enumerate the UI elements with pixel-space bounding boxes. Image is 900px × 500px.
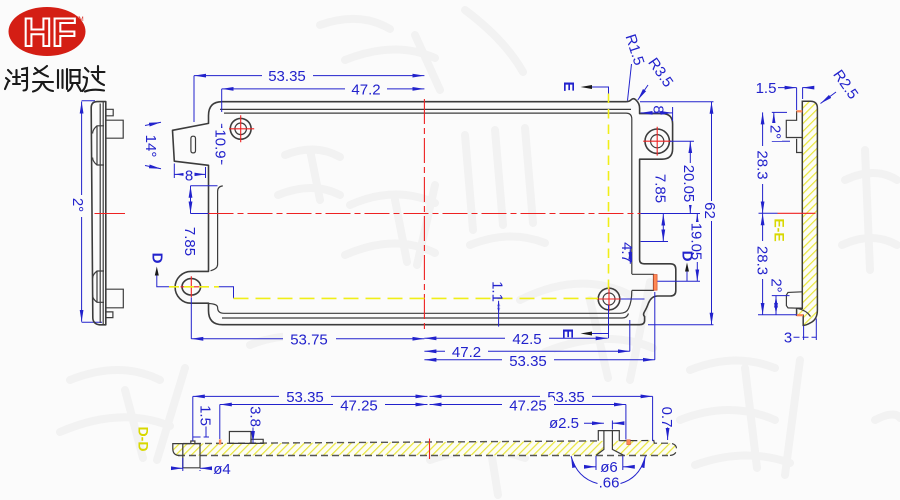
svg-text:3: 3 — [784, 330, 792, 347]
svg-text:4.7: 4.7 — [618, 242, 635, 263]
dim 7.85 left — [191, 186, 218, 214]
svg-text:E: E — [559, 328, 576, 338]
dim 8 right ear — [641, 107, 673, 121]
DD dim 53.35 left — [193, 396, 428, 441]
logo HF ellipse — [9, 7, 86, 56]
DD strip bottom edge dashed — [178, 455, 668, 457]
dim 47.2 top — [222, 89, 425, 112]
main inner mid top line — [220, 108, 631, 110]
DD dim o2.5 — [584, 421, 620, 430]
DD dim 1.5 — [193, 427, 209, 438]
svg-text:47.25: 47.25 — [509, 398, 547, 415]
svg-text:8: 8 — [650, 105, 667, 113]
DD left end — [173, 444, 183, 456]
svg-text:47.2: 47.2 — [351, 82, 380, 99]
DD step small — [251, 439, 263, 443]
hole bottom-left — [181, 276, 203, 297]
svg-text:.66: .66 — [599, 475, 620, 492]
dim 19.05 — [658, 214, 701, 282]
svg-text:53.75: 53.75 — [290, 332, 328, 349]
main horizontal centerline red — [209, 213, 641, 215]
dim 53.35 bottom — [424, 292, 654, 360]
svg-text:3.8: 3.8 — [247, 406, 264, 427]
DD blue right stub — [621, 298, 645, 300]
logo chinese text 鸿发顺达 — [5, 66, 105, 92]
EE dim 1.5 — [778, 88, 809, 110]
dim 62 — [640, 102, 714, 325]
dim 47.2 bottom — [424, 320, 629, 351]
side view top pill boss — [93, 126, 104, 165]
DD dim 53.35 right — [430, 396, 653, 441]
DD dim 47.25 left — [220, 405, 428, 440]
DD centerline red — [429, 439, 431, 460]
svg-text:TM: TM — [75, 17, 84, 23]
svg-text:1.5: 1.5 — [756, 80, 777, 97]
DD orange square — [627, 440, 631, 445]
svg-text:HF: HF — [23, 11, 76, 55]
hole top-right — [643, 127, 671, 156]
main inner opening — [209, 113, 632, 313]
DD dim .66 arcs — [571, 456, 646, 484]
main inner mid bottom line — [222, 314, 629, 319]
svg-text:42.5: 42.5 — [512, 331, 541, 348]
D marker bottom-left — [149, 253, 169, 287]
svg-text:47.25: 47.25 — [340, 398, 378, 415]
DD rivet boss — [596, 431, 623, 456]
svg-text:28.3: 28.3 — [754, 150, 771, 179]
R1.5 label — [622, 32, 648, 100]
svg-text:ø6: ø6 — [600, 459, 618, 476]
EE R2.5 label — [821, 67, 862, 104]
R3.5 label — [638, 55, 677, 100]
DD dim 3.8 — [252, 428, 254, 444]
dim 20.05 — [670, 141, 694, 213]
side view bottom step — [106, 312, 113, 318]
EE centerline — [759, 212, 778, 214]
main horizontal centerline blue extension — [191, 213, 701, 215]
svg-text:D: D — [149, 253, 166, 264]
side view red centerline — [95, 213, 126, 215]
dim 14deg — [145, 122, 161, 169]
svg-text:47.2: 47.2 — [452, 344, 481, 361]
D marker right — [679, 251, 696, 282]
DD dim 47.25 right — [430, 405, 626, 440]
svg-text:ø2.5: ø2.5 — [549, 415, 579, 432]
dim 8 left tab — [174, 164, 205, 179]
svg-text:7.85: 7.85 — [652, 174, 669, 203]
svg-text:2°: 2° — [69, 198, 86, 212]
DD left boss o4 — [183, 444, 200, 468]
side view bottom tab — [106, 289, 124, 308]
svg-text:D: D — [679, 251, 696, 262]
dim 7.85 right — [641, 214, 668, 242]
DD dim o4 — [174, 458, 212, 471]
svg-text:53.35: 53.35 — [286, 389, 324, 406]
DD hatched strip — [173, 441, 677, 456]
EE dim 28.3 bottom — [758, 213, 797, 314]
svg-text:2°: 2° — [768, 278, 785, 292]
svg-text:7.85: 7.85 — [181, 227, 198, 256]
svg-text:53.35: 53.35 — [268, 68, 306, 85]
dim 4.7 — [629, 248, 631, 264]
svg-text:28.3: 28.3 — [754, 246, 771, 275]
svg-text:1.1: 1.1 — [489, 281, 506, 302]
side view top tab — [106, 120, 123, 138]
svg-text:E-E: E-E — [771, 218, 787, 241]
DD strip right top edge — [619, 441, 676, 456]
dim 53.35 top — [194, 76, 424, 122]
side view dim 2deg line — [82, 101, 102, 322]
dim 53.75 bottom — [191, 298, 424, 339]
EE hatched body — [797, 101, 818, 325]
side view outline — [91, 102, 106, 325]
DD orange tick — [219, 439, 221, 444]
DD left boss nub — [191, 441, 195, 444]
hole top-left — [227, 115, 254, 142]
svg-text:53.35: 53.35 — [509, 353, 547, 370]
svg-text:20.05: 20.05 — [680, 165, 697, 203]
side view top small tab — [106, 109, 113, 116]
EE orange tick bottom — [797, 314, 804, 316]
main outer outline — [173, 99, 676, 325]
side view inner vertical lines — [100, 102, 103, 324]
EE dim 3 — [794, 319, 817, 341]
E marker bottom — [559, 328, 608, 338]
EE orange tick top — [797, 110, 803, 112]
svg-text:E: E — [560, 81, 577, 91]
dim 10.9 — [221, 124, 223, 165]
svg-text:62: 62 — [701, 202, 718, 219]
DD step big — [229, 432, 251, 444]
side view bottom pill boss — [93, 271, 104, 302]
main bottom right protrusion — [632, 274, 654, 290]
svg-text:1.5: 1.5 — [197, 405, 214, 426]
svg-text:0.7: 0.7 — [658, 407, 675, 428]
EE foot curve — [797, 308, 811, 316]
dim 42.5 bottom — [424, 305, 608, 338]
EE top-left tab — [786, 111, 802, 152]
DD yellow section line main — [234, 297, 599, 299]
main vertical centerline red — [423, 99, 425, 333]
hole bottom-right — [597, 287, 622, 312]
DD dim o6 — [586, 456, 634, 470]
E marker top — [560, 81, 608, 93]
DD dim 0.7 — [667, 427, 669, 440]
DD strip top edge dashed — [183, 441, 598, 444]
svg-text:ø4: ø4 — [213, 461, 231, 478]
EE dim 2deg top — [772, 112, 790, 141]
orange bar right — [654, 275, 658, 291]
svg-text:8: 8 — [185, 168, 193, 185]
dim 1.1 — [497, 301, 500, 327]
main tab slot — [191, 136, 196, 153]
EE dim 28.3 top — [762, 112, 764, 213]
DD blue jog — [219, 287, 234, 299]
svg-text:D-D: D-D — [135, 427, 151, 452]
DD yellow section line left — [169, 286, 219, 288]
svg-text:14°: 14° — [142, 135, 159, 158]
svg-text:2°: 2° — [767, 125, 784, 139]
EE boss left bottom — [786, 292, 802, 309]
EE dim 2deg bottom — [772, 296, 790, 315]
EE yellow section line vertical — [608, 94, 610, 294]
svg-text:10.9: 10.9 — [212, 129, 229, 158]
